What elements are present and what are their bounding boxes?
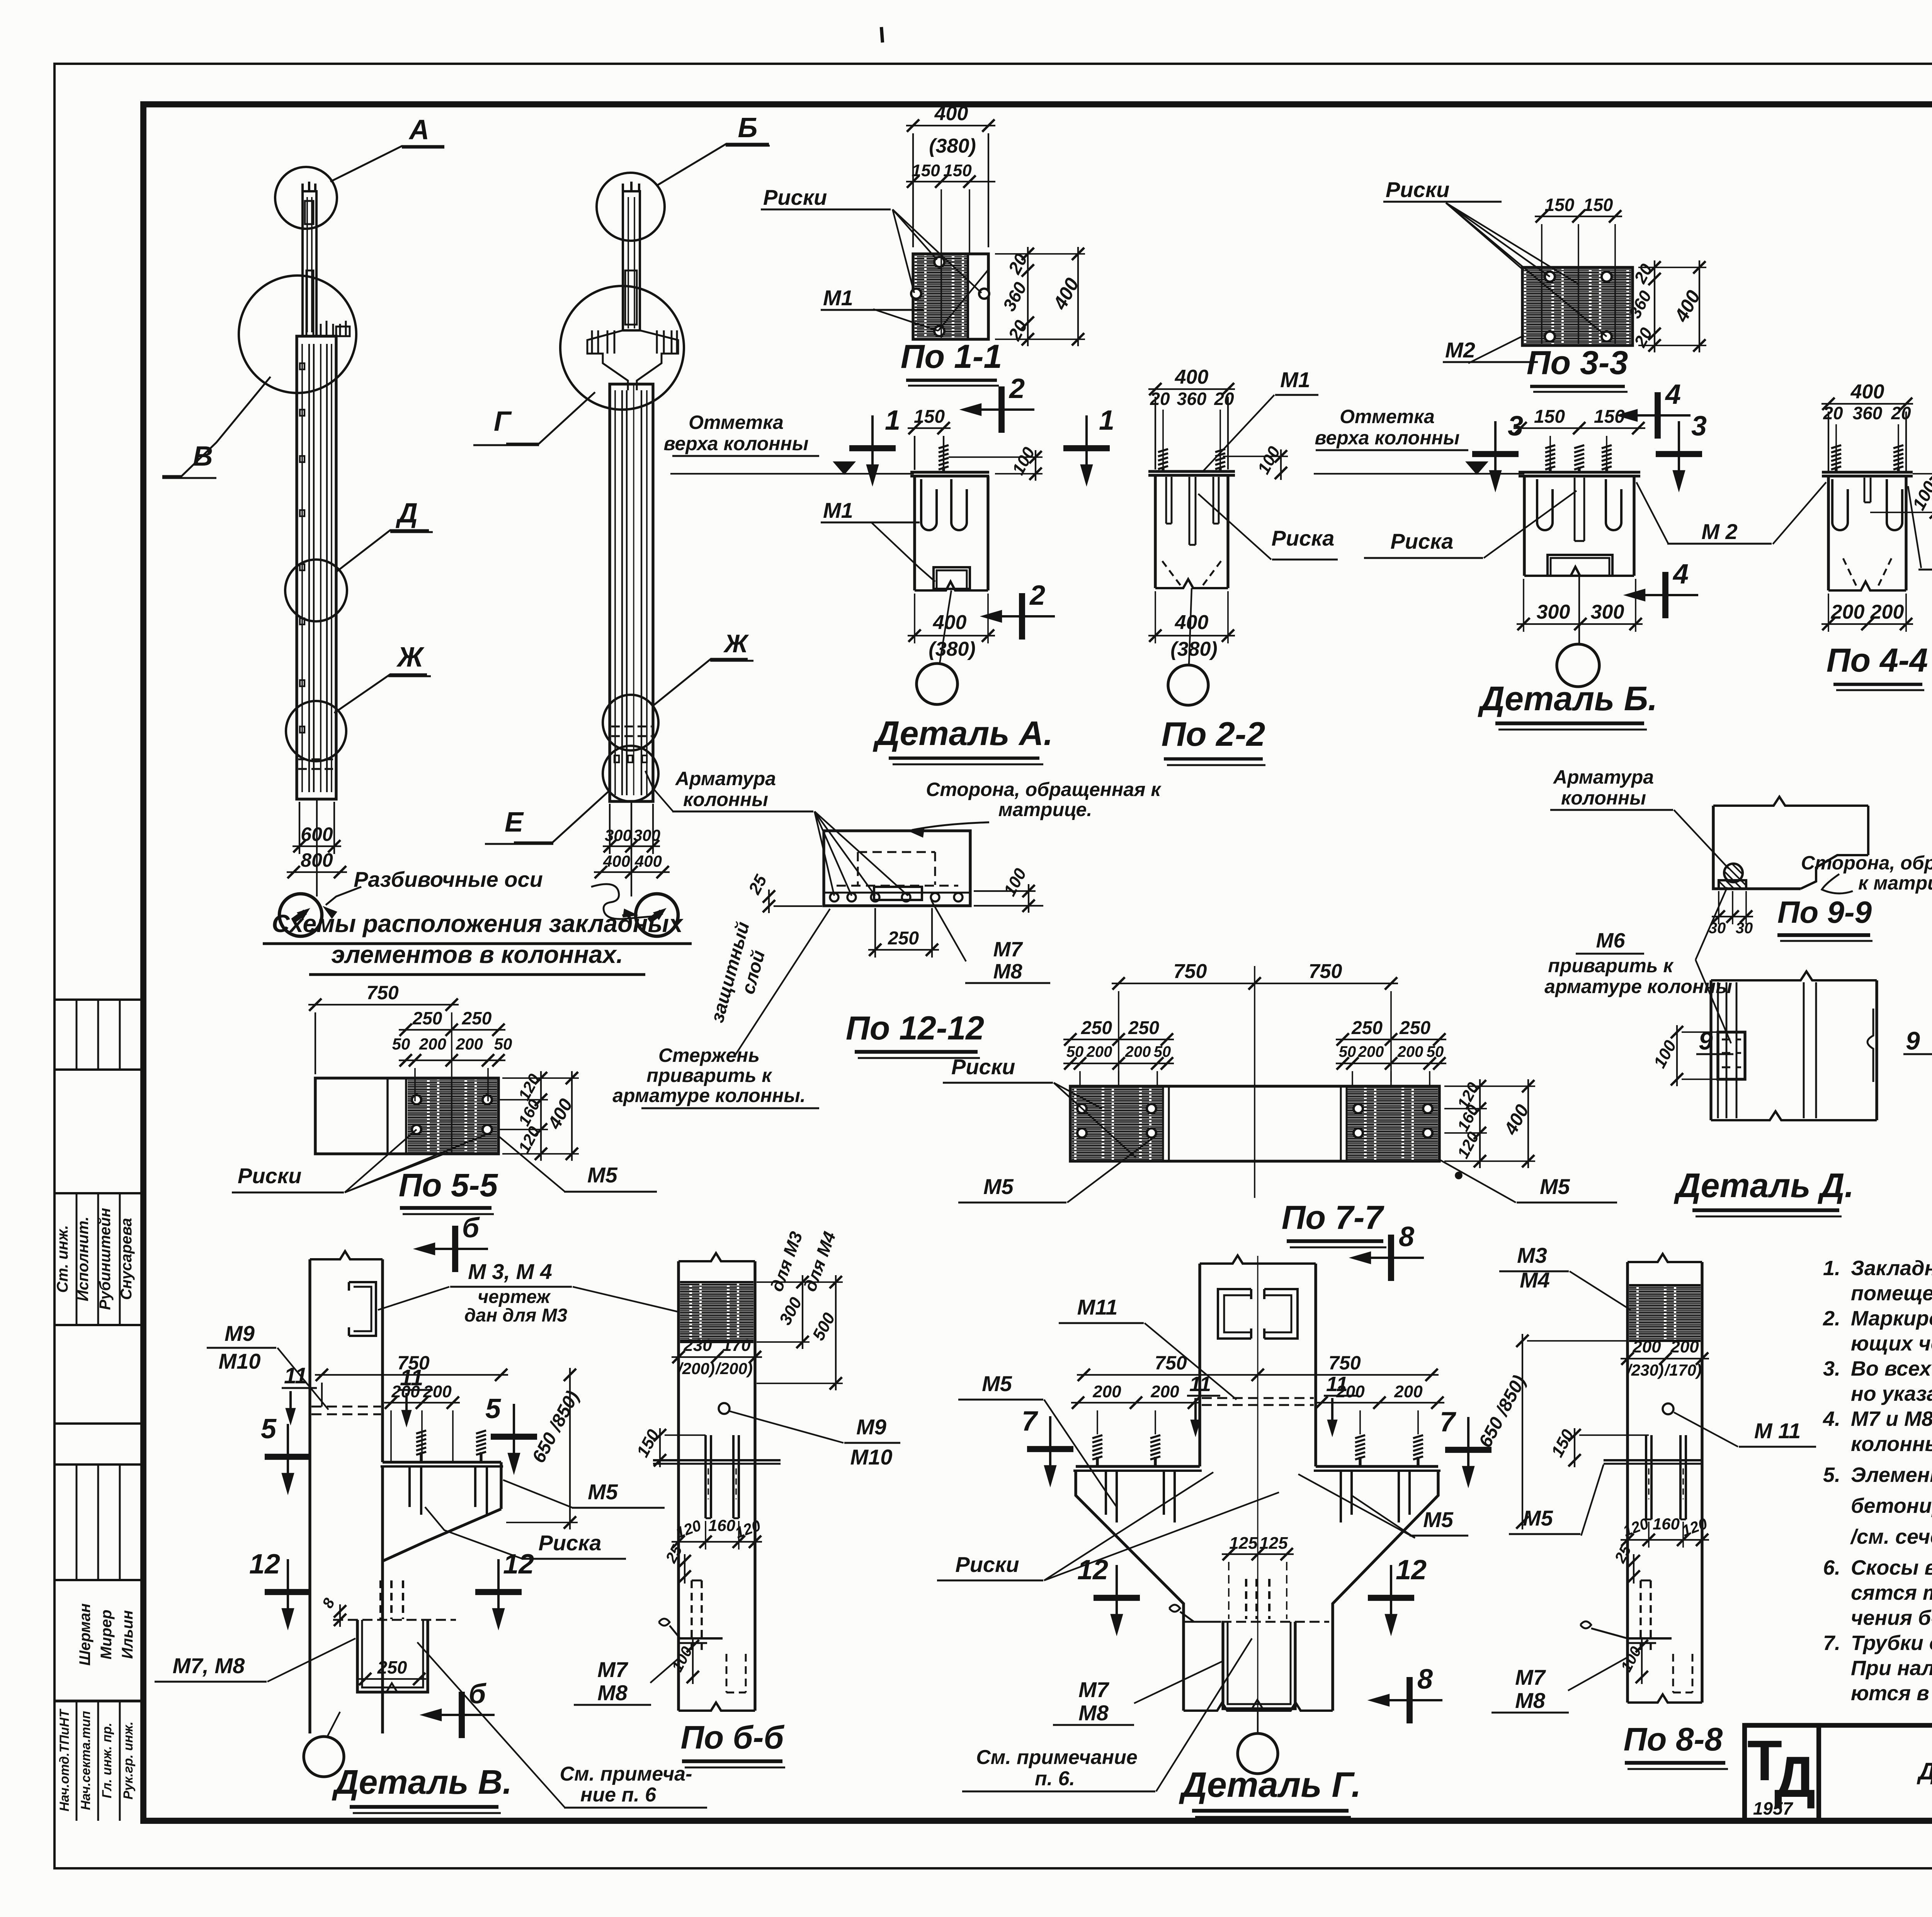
По 12-12 dim 100 right — [1028, 884, 1029, 913]
svg-text:М8: М8 — [597, 1681, 628, 1705]
svg-text:Закладные элементы и специф: Закладные элементы и спецификация на них — [1851, 1257, 1932, 1280]
svg-text:150: 150 — [1545, 195, 1575, 215]
Деталь В dim 750 — [315, 1374, 508, 1376]
svg-text:В: В — [193, 441, 213, 472]
margin table band 2 rules — [54, 1192, 143, 1194]
svg-text:М7 и М8 до бетонирования за: М7 и М8 до бетонирования заложить с нару… — [1851, 1407, 1932, 1431]
svg-text:400: 400 — [1175, 366, 1209, 388]
svg-text:300: 300 — [776, 1294, 806, 1328]
svg-text:Ж: Ж — [723, 629, 749, 658]
Деталь Г М7М8 dashed tails — [1245, 1579, 1247, 1619]
title block divider after logo — [1817, 1725, 1821, 1821]
circle В on column 1 — [239, 276, 356, 393]
svg-text:Рубинштейн: Рубинштейн — [97, 1208, 114, 1310]
svg-text:6.: 6. — [1823, 1556, 1840, 1579]
svg-text:дан для М3: дан для М3 — [464, 1305, 568, 1326]
Деталь Г right bracket plate — [1316, 1465, 1438, 1468]
top center mark — [881, 27, 883, 43]
svg-text:300: 300 — [1591, 601, 1624, 623]
svg-text:колонны: колонны — [1561, 787, 1646, 809]
По 9-9 top edge with break — [1713, 797, 1868, 806]
svg-text:Деталь В.: Деталь В. — [332, 1763, 512, 1801]
svg-text:400: 400 — [934, 102, 968, 125]
Разбивочные оси squiggle to axis 2 — [591, 884, 655, 919]
margin table band 3 rules — [54, 1579, 143, 1581]
svg-text:Во всех колоннах необходимо: Во всех колоннах необходимо, предусмотре… — [1851, 1357, 1932, 1380]
svg-text:М3: М3 — [1517, 1243, 1547, 1267]
svg-text:ются в сторону матрицы /см: ются в сторону матрицы /см. сечение 11-1… — [1851, 1682, 1932, 1705]
По 7-7 dim 250 250 right — [1336, 1039, 1446, 1040]
По 6-6 hatched band — [680, 1282, 753, 1342]
Деталь Б column outline — [1523, 476, 1526, 576]
margin table top rule — [54, 998, 143, 1001]
svg-text:250: 250 — [1351, 1018, 1383, 1038]
Деталь В cut mark б bottom — [439, 1714, 495, 1716]
svg-text:По 4-4: По 4-4 — [1827, 642, 1928, 679]
По 6-6 dashed anchor below — [690, 1580, 692, 1654]
schematic column 2 bottom marks — [614, 755, 619, 762]
svg-text:См. примечание: См. примечание — [976, 1746, 1138, 1769]
svg-text:25: 25 — [745, 872, 771, 898]
svg-text:150: 150 — [914, 407, 945, 427]
Деталь Г bottom box — [1223, 1622, 1295, 1709]
svg-text:Гл. инж. пр.: Гл. инж. пр. — [100, 1723, 114, 1798]
svg-text:М7: М7 — [597, 1657, 629, 1682]
Деталь Г internal channels — [1218, 1289, 1251, 1339]
svg-text:150: 150 — [1594, 407, 1625, 427]
schematic column 1 top narrow shaft — [303, 191, 316, 336]
По 1-1 plate outline — [913, 254, 988, 339]
Деталь А dim 400 380 below — [908, 635, 995, 636]
svg-text:2.: 2. — [1823, 1307, 1840, 1330]
Деталь Г anchor tails left — [1105, 1471, 1107, 1515]
Деталь Б center rods — [1574, 478, 1576, 541]
По 2-2 column outline — [1154, 475, 1156, 588]
svg-text:Отметка: Отметка — [1340, 406, 1435, 427]
svg-text:300: 300 — [1537, 601, 1570, 623]
svg-text:8: 8 — [1417, 1664, 1433, 1695]
svg-text:7: 7 — [1440, 1407, 1456, 1437]
label Д leader — [336, 530, 429, 572]
svg-text:По 1-1: По 1-1 — [901, 338, 1002, 375]
Деталь А cut mark 1 right — [1085, 415, 1088, 468]
svg-text:Риска: Риска — [1272, 526, 1335, 550]
svg-text:По б-б: По б-б — [680, 1719, 784, 1755]
По 8-8 corner plate — [1628, 1637, 1672, 1640]
По 12-12 dashed hidden lines — [858, 851, 935, 853]
По 7-7 dim 250 250 left — [1063, 1039, 1174, 1040]
Деталь А dim 100 right — [1035, 450, 1036, 481]
svg-text:120: 120 — [515, 1123, 543, 1156]
svg-text:Скосы внутреннего торца под: Скосы внутреннего торца подкрановой част… — [1851, 1556, 1932, 1579]
По 8-8 dim 200 200 — [1621, 1358, 1709, 1359]
По 7-7 centerline — [1254, 966, 1255, 1198]
svg-text:Отметка: Отметка — [689, 412, 784, 433]
svg-text:200: 200 — [1150, 1382, 1179, 1401]
schematic column 1 tube dashes — [298, 759, 335, 760]
По 5-5 plate hatch — [408, 1080, 497, 1152]
Деталь В cut mark б top — [432, 1248, 488, 1250]
circle Б on column 2 — [597, 173, 665, 241]
circle Д on column 1 — [285, 560, 347, 621]
По 8-8 cut mark 7 left — [1467, 1417, 1469, 1469]
Деталь В axis circle — [327, 1712, 340, 1737]
circle Ж on column 2 — [603, 695, 658, 750]
svg-text:3: 3 — [1691, 411, 1707, 442]
По 4-4 column outline — [1827, 476, 1830, 590]
svg-text:(380): (380) — [929, 638, 975, 660]
svg-text:250: 250 — [1128, 1018, 1159, 1038]
Деталь В cut mark 5 left — [287, 1424, 289, 1476]
svg-text:125: 125 — [1229, 1534, 1258, 1553]
Риски leaders По 1-1 — [893, 209, 937, 260]
svg-text:11: 11 — [1326, 1373, 1348, 1396]
svg-text:Риски: Риски — [238, 1163, 301, 1188]
svg-text:150: 150 — [1534, 407, 1565, 427]
svg-text:ющих чертежах колонн, а та: ющих чертежах колонн, а также на данном … — [1851, 1332, 1932, 1355]
По 2-2 dim 100 right — [1280, 449, 1282, 480]
svg-text:По 3-3: По 3-3 — [1527, 344, 1628, 381]
svg-text:/230): /230) — [1626, 1361, 1664, 1379]
label Ж leader column1 — [334, 674, 427, 713]
Деталь Б dim 300 300 below — [1517, 623, 1643, 625]
svg-text:9: 9 — [1906, 1026, 1920, 1055]
svg-text:Нач.отд.ТПиНТ: Нач.отд.ТПиНТ — [57, 1708, 72, 1812]
svg-text:150: 150 — [1548, 1426, 1578, 1460]
По 5-5 plate outline — [315, 1078, 498, 1154]
schematic column 1 main shaft — [297, 336, 336, 799]
svg-text:М10: М10 — [219, 1349, 261, 1373]
margin table band 1 — [54, 1068, 143, 1071]
circle Е on column 2 — [603, 746, 658, 801]
По 4-4 center rod — [1864, 478, 1866, 502]
Деталь А top plate — [910, 471, 989, 473]
svg-text:Риски: Риски — [763, 185, 827, 209]
svg-text:50: 50 — [1427, 1043, 1444, 1060]
По 3-3 dim 150 150 — [1535, 216, 1622, 217]
svg-text:М7: М7 — [1515, 1665, 1546, 1689]
svg-text:колонны: колонны — [683, 789, 768, 810]
svg-text:3.: 3. — [1823, 1357, 1840, 1380]
svg-text:200: 200 — [1394, 1382, 1423, 1401]
column 1 axis circle — [316, 799, 318, 896]
Деталь А hook anchors — [921, 479, 937, 530]
svg-text:ние п. 6: ние п. 6 — [580, 1784, 656, 1806]
Деталь Б anchor bolts — [1545, 445, 1555, 448]
По 7-7 holes right — [1354, 1104, 1363, 1113]
svg-text:Арматура: Арматура — [1553, 766, 1654, 788]
svg-text:/200): /200) — [715, 1359, 753, 1378]
По 1-1 plate hatch — [915, 255, 968, 338]
schematic column 2 top narrow shaft — [623, 191, 640, 330]
svg-text:160: 160 — [1454, 1102, 1482, 1134]
По 6-6 dim 100 — [692, 1639, 694, 1684]
svg-text:По 5-5: По 5-5 — [399, 1167, 498, 1203]
Деталь В cut mark 12 left — [287, 1559, 289, 1611]
По 8-8 hatched band — [1629, 1285, 1701, 1341]
М9 М10 leader Деталь В — [277, 1348, 328, 1410]
По 6-6 dim 25 — [684, 1554, 685, 1584]
По 1-1 dim 150 150 — [906, 181, 995, 182]
svg-text:5: 5 — [485, 1393, 501, 1424]
svg-text:360: 360 — [999, 279, 1031, 315]
svg-text:п. 6.: п. 6. — [1035, 1767, 1075, 1790]
Деталь Г haunches — [1076, 1471, 1184, 1711]
svg-text:Исполнит.: Исполнит. — [75, 1216, 92, 1301]
svg-text:М11: М11 — [1077, 1295, 1118, 1319]
svg-text:20: 20 — [1631, 261, 1656, 287]
Деталь Д М6 box — [1718, 1032, 1745, 1079]
По 3-3 right dims 20 360 20 — [1654, 260, 1655, 352]
svg-text:2: 2 — [1009, 373, 1025, 404]
svg-text:200: 200 — [1086, 1043, 1112, 1060]
svg-text:М 3, М 4: М 3, М 4 — [468, 1259, 552, 1284]
Деталь В tube dashes — [311, 1406, 381, 1408]
svg-text:250: 250 — [888, 928, 919, 949]
Деталь Г dim 750 750 — [1077, 1374, 1439, 1376]
circle Г on column 2 — [560, 286, 684, 410]
Риски leaders По 7-7 — [1054, 1083, 1102, 1109]
svg-text:125: 125 — [1259, 1534, 1288, 1553]
svg-text:Деталь А.: Деталь А. — [872, 714, 1053, 752]
svg-text:Ильин: Ильин — [119, 1610, 136, 1659]
svg-text:250: 250 — [462, 1008, 492, 1028]
svg-text:М 11: М 11 — [1754, 1419, 1801, 1443]
По 4-4 dim 200 200 below — [1821, 623, 1913, 625]
По 8-8 dashed anchor below — [1639, 1580, 1641, 1654]
Деталь А column outline — [913, 476, 916, 590]
margin table bottom section — [54, 1699, 143, 1702]
svg-text:М9: М9 — [224, 1321, 255, 1345]
Сторона leader По 9-9 — [1822, 874, 1853, 893]
Деталь В channel at top — [349, 1282, 376, 1336]
М6 leaders — [1696, 887, 1727, 960]
TD logo box — [1745, 1725, 1819, 1821]
По 2-2 top plate — [1148, 470, 1235, 473]
svg-text:8: 8 — [1399, 1221, 1414, 1252]
По 7-7 right dim 400 — [1527, 1079, 1529, 1168]
Деталь Б cut mark 3 left — [1494, 421, 1497, 473]
svg-text:элементов в колоннах.: элементов в колоннах. — [331, 941, 623, 968]
Деталь В box break mark — [386, 1683, 397, 1692]
svg-text:150: 150 — [633, 1426, 663, 1460]
svg-text:200: 200 — [1397, 1043, 1423, 1060]
По 6-6 М9 М10 hole — [719, 1403, 730, 1414]
svg-text:4: 4 — [1672, 559, 1689, 590]
Деталь В dim 650 850 right — [569, 1368, 571, 1529]
svg-text:150: 150 — [943, 161, 972, 180]
svg-text:5.: 5. — [1823, 1463, 1840, 1487]
Деталь В column edges — [310, 1251, 383, 1259]
См примечание leader Деталь Г — [1156, 1638, 1252, 1791]
title block bottom rule — [143, 1818, 1932, 1824]
По 7-7 riska dot — [1456, 1172, 1462, 1179]
svg-text:250: 250 — [1399, 1018, 1430, 1038]
По 5-5 right dim 400 — [571, 1071, 573, 1161]
svg-text:20: 20 — [1150, 389, 1170, 409]
Деталь Г bottom box dashed top — [1192, 1621, 1329, 1623]
label А leader — [330, 146, 444, 182]
Деталь Б level line — [1314, 473, 1524, 475]
Деталь Б cut mark 4 top — [1634, 414, 1690, 417]
svg-text:5: 5 — [261, 1414, 277, 1444]
Деталь Г cut mark 7 left — [1049, 1416, 1051, 1468]
Деталь В cut mark 12 right — [497, 1559, 500, 1611]
Деталь Б hook anchors — [1537, 479, 1553, 530]
svg-text:М1: М1 — [823, 286, 853, 310]
Деталь Г dim 125 125 — [1222, 1553, 1294, 1555]
svg-text:к матрице.: к матрице. — [1858, 872, 1932, 894]
svg-text:(380): (380) — [929, 135, 976, 157]
svg-text:360: 360 — [1177, 389, 1207, 409]
По 12-12 dim 25 left — [768, 890, 770, 913]
По 12-12 center channel — [874, 887, 922, 900]
svg-text:сятся только к плоскости,: сятся только к плоскости, обращенной к м… — [1851, 1581, 1932, 1604]
schematic column 1 side marks — [300, 363, 304, 369]
По 8-8 dim 25 — [1633, 1554, 1634, 1584]
Деталь В dim 8 small left — [339, 1604, 341, 1627]
Деталь Г dim 200 200 right — [1315, 1402, 1444, 1403]
По 3-3 plate outline — [1522, 267, 1633, 345]
Стержень leader — [735, 909, 830, 1055]
svg-text:М5: М5 — [1540, 1174, 1570, 1199]
svg-text:Сторона, обращенная: Сторона, обращенная — [1801, 852, 1932, 874]
svg-text:250: 250 — [412, 1008, 442, 1028]
svg-text:А: А — [408, 114, 429, 145]
svg-text:М9: М9 — [856, 1415, 886, 1439]
По 8-8 hook mark 8 — [1580, 1621, 1591, 1628]
svg-text:М7, М8: М7, М8 — [173, 1653, 245, 1678]
svg-text:приварить к: приварить к — [646, 1065, 772, 1086]
По 12-12 bolt circles — [830, 893, 838, 902]
svg-text:Сторона, обращенная к: Сторона, обращенная к — [926, 779, 1162, 800]
svg-text:750: 750 — [1309, 960, 1342, 983]
По 8-8 М11 hole — [1663, 1403, 1673, 1414]
Деталь Д side edges — [1709, 980, 1712, 1120]
По 7-7 left hatch — [1072, 1088, 1163, 1160]
По 2-2 dim 400 380 below — [1148, 635, 1235, 636]
svg-text:/см. сечение 9-9/.: /см. сечение 9-9/. — [1850, 1525, 1932, 1548]
svg-text:100: 100 — [1650, 1037, 1680, 1071]
Деталь Д internal lines — [1717, 982, 1719, 1118]
По 4-4 hook anchors — [1832, 479, 1848, 530]
По 7-7 right hatch — [1347, 1088, 1438, 1160]
svg-text:б: б — [469, 1679, 487, 1709]
svg-text:Арматура: Арматура — [675, 768, 776, 789]
svg-text:1.: 1. — [1823, 1257, 1840, 1280]
svg-text:100: 100 — [1009, 444, 1039, 478]
По 2-2 anchor bolts — [1158, 449, 1168, 452]
По 4-4 dim 400 top — [1821, 403, 1913, 405]
svg-text:200: 200 — [1831, 601, 1865, 623]
svg-text:М10: М10 — [850, 1445, 893, 1469]
svg-text:б: б — [462, 1213, 480, 1243]
svg-text:120: 120 — [1621, 1515, 1651, 1540]
svg-text:Разбивочные оси: Разбивочные оси — [354, 867, 543, 891]
label Е leader — [514, 791, 609, 842]
schematic column 2 tube dashes — [611, 726, 651, 728]
М3 М4 leaders — [378, 1287, 449, 1310]
По 3-3 holes — [1545, 272, 1555, 282]
svg-text:(380): (380) — [1170, 638, 1217, 660]
svg-text:М5: М5 — [588, 1480, 618, 1504]
svg-text:Снусарева: Снусарева — [118, 1218, 135, 1300]
svg-text:9: 9 — [1699, 1026, 1713, 1055]
По 4-4 top plate — [1822, 471, 1913, 473]
svg-text:Риска: Риска — [1391, 529, 1454, 553]
Деталь Г cut mark 12 left — [1116, 1565, 1118, 1617]
По 2-2 anchor rods inside — [1165, 477, 1167, 524]
svg-text:8: 8 — [319, 1595, 338, 1611]
Деталь В М7М8 dashed tails — [379, 1580, 382, 1619]
svg-text:1: 1 — [885, 405, 900, 436]
svg-text:М1: М1 — [823, 498, 853, 522]
По 12-12 bottom plate line — [824, 892, 970, 894]
svg-text:750: 750 — [366, 982, 399, 1004]
Деталь Г cut mark 8 bottom — [1386, 1699, 1442, 1701]
По 8-8 dim 150 — [1574, 1428, 1575, 1467]
title block top rule — [1745, 1723, 1932, 1728]
svg-text:Детали колонн.: Детали колонн. — [1917, 1758, 1932, 1785]
svg-text:При наличии арматуры в сер: При наличии арматуры в середине колонны … — [1851, 1657, 1932, 1680]
svg-text:Элементы М6 для крепления: Элементы М6 для крепления наружных стен … — [1851, 1463, 1932, 1487]
svg-text:По 7-7: По 7-7 — [1282, 1199, 1385, 1236]
По 6-6 hanging bolts — [704, 1435, 707, 1518]
svg-text:чертеж: чертеж — [478, 1287, 551, 1307]
svg-text:300: 300 — [633, 826, 660, 844]
По 6-6 dim 150 — [659, 1428, 661, 1467]
svg-text:/200): /200) — [677, 1359, 715, 1378]
По 5-5 holes — [412, 1095, 421, 1104]
svg-text:1957: 1957 — [1753, 1798, 1794, 1818]
svg-text:400: 400 — [603, 852, 630, 870]
svg-text:М2: М2 — [1445, 338, 1475, 362]
svg-text:150: 150 — [912, 161, 940, 180]
svg-text:М6: М6 — [1596, 929, 1625, 952]
Деталь Г left bracket plate — [1076, 1465, 1200, 1468]
label Г leader — [506, 392, 595, 444]
svg-text:М1: М1 — [1280, 367, 1310, 392]
svg-text:7: 7 — [1022, 1406, 1038, 1437]
Деталь Д top edge — [1711, 971, 1877, 980]
По 2-2 dim 400 top — [1148, 388, 1235, 390]
svg-text:Риска: Риска — [539, 1531, 602, 1555]
М1 leader По 1-1 — [873, 309, 938, 331]
column 2 dimension 400 400 — [594, 871, 670, 873]
По 5-5 dim 50 200 200 50 — [399, 1060, 505, 1061]
svg-text:100: 100 — [1254, 443, 1284, 477]
Деталь В cut mark 5 right — [513, 1404, 515, 1456]
По 12-12 outline — [824, 831, 970, 906]
column 2 axis circle — [631, 802, 632, 896]
Деталь Г dim 200 200 left — [1071, 1402, 1201, 1403]
svg-text:М7: М7 — [1078, 1677, 1110, 1702]
svg-text:помещены на листе 18.: помещены на листе 18. — [1851, 1282, 1932, 1305]
svg-text:Ж: Ж — [396, 642, 425, 673]
По 7-7 dim 750 750 — [1112, 983, 1398, 984]
Деталь Д bottom edge — [1711, 1111, 1877, 1120]
По 5-5 plate dividers — [386, 1078, 388, 1154]
svg-text:М8: М8 — [993, 960, 1022, 983]
По 6-6 dim 120 160 120 — [672, 1541, 762, 1543]
svg-text:200: 200 — [423, 1382, 452, 1401]
Деталь Г cut mark 12 right — [1390, 1565, 1392, 1617]
label В leader — [162, 377, 270, 476]
svg-text:400: 400 — [933, 611, 967, 634]
Деталь Д dim 100 left — [1676, 1025, 1678, 1086]
Деталь В bottom box dashed top — [333, 1619, 456, 1621]
По 2-2 chamfer dashes — [1162, 561, 1181, 586]
